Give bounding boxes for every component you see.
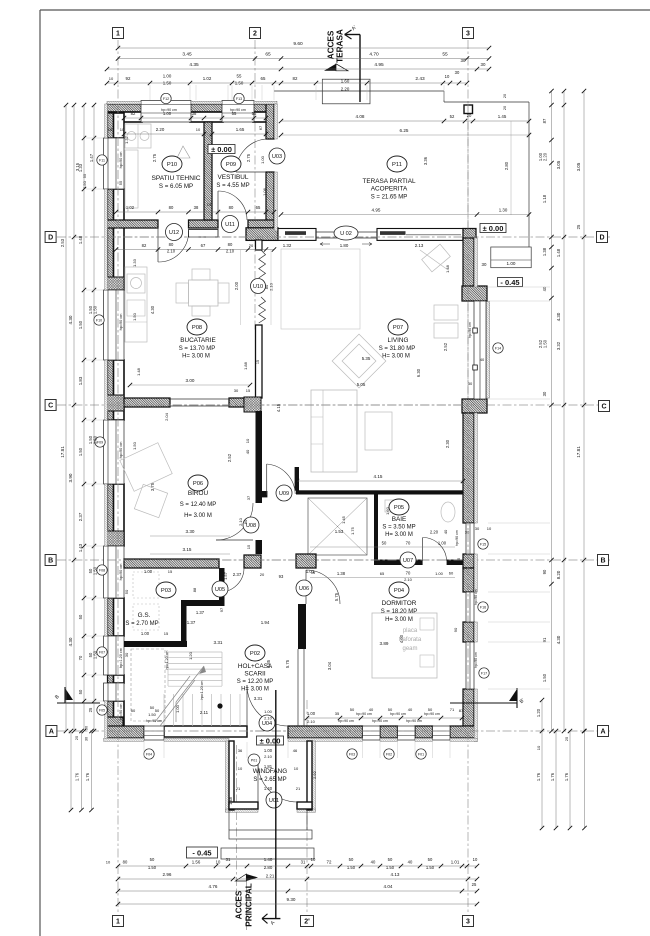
door U12 swing into kitchen xyxy=(158,231,189,262)
svg-text:1.01: 1.01 xyxy=(451,860,460,865)
axis box 2 top xyxy=(250,28,261,39)
room P11 TERASA xyxy=(387,156,407,172)
svg-text:G.S.: G.S. xyxy=(138,612,151,619)
baie west wall xyxy=(374,494,378,562)
svg-text:70: 70 xyxy=(406,571,411,576)
svg-text:10: 10 xyxy=(238,766,243,771)
door circle U05 xyxy=(212,581,228,597)
grid axis B (horizontal y=560) xyxy=(57,559,610,561)
svg-text:67: 67 xyxy=(201,243,206,248)
svg-text:2.85: 2.85 xyxy=(266,659,271,668)
right-bottom tiers below axis A xyxy=(541,700,543,828)
axis box D right xyxy=(597,232,608,243)
svg-text:1.06: 1.06 xyxy=(262,187,267,196)
exterior wall: west (left), piers between windows xyxy=(108,113,114,138)
svg-text:2.21: 2.21 xyxy=(266,874,275,879)
door U05 swing xyxy=(220,568,244,592)
svg-text:70: 70 xyxy=(78,655,83,660)
svg-text:U01: U01 xyxy=(269,798,279,804)
svg-text:P09: P09 xyxy=(226,162,236,168)
svg-text:4.04: 4.04 xyxy=(384,884,393,889)
svg-text:2.75: 2.75 xyxy=(152,153,157,162)
svg-text:31: 31 xyxy=(301,860,306,865)
svg-text:2.20: 2.20 xyxy=(430,530,439,535)
svg-text:F12: F12 xyxy=(163,97,169,101)
top dimension tier 4 (detail) xyxy=(107,82,467,84)
axis A overlay xyxy=(107,730,477,732)
svg-text:10: 10 xyxy=(106,860,111,865)
svg-text:ACCES: ACCES xyxy=(327,30,336,59)
living side table xyxy=(365,412,392,450)
window circle F17 xyxy=(479,668,489,678)
svg-text:hp=1.20 cm: hp=1.20 cm xyxy=(165,651,169,670)
svg-text:TERASA PARTIAL: TERASA PARTIAL xyxy=(362,178,415,185)
svg-text:hp=90 cm: hp=90 cm xyxy=(119,442,123,459)
svg-text:2.10: 2.10 xyxy=(404,577,413,582)
svg-text:F01: F01 xyxy=(418,753,424,757)
svg-text:30: 30 xyxy=(124,652,129,657)
svg-text:50: 50 xyxy=(78,614,83,619)
door U11 swing into vestibul xyxy=(218,191,247,220)
svg-text:1.33: 1.33 xyxy=(132,258,137,267)
sheet border frame xyxy=(40,9,650,11)
svg-text:5.75: 5.75 xyxy=(334,592,339,601)
svg-text:25: 25 xyxy=(74,735,79,740)
svg-text:2': 2' xyxy=(304,918,310,925)
living carpet outline xyxy=(281,249,360,329)
top dimension tier 2 (3.45 / 65 / 4.70 / 55) xyxy=(118,58,489,60)
svg-text:hp=90 cm: hp=90 cm xyxy=(455,530,459,546)
svg-text:4.13: 4.13 xyxy=(391,872,400,877)
svg-text:2.53: 2.53 xyxy=(60,238,65,247)
svg-text:1: 1 xyxy=(116,30,120,37)
svg-text:40: 40 xyxy=(408,860,413,865)
svg-text:hp=90 cm: hp=90 cm xyxy=(119,704,123,721)
svg-text:H= 3.00 M: H= 3.00 M xyxy=(385,617,413,623)
svg-text:2.20: 2.20 xyxy=(543,152,548,161)
svg-text:S = 21.65 MP: S = 21.65 MP xyxy=(371,195,408,201)
zigzag break above U10 xyxy=(259,250,266,278)
svg-text:S = 18.20 MP: S = 18.20 MP xyxy=(381,609,418,615)
window circle F01 xyxy=(416,749,426,759)
window F14 (east wall) xyxy=(474,301,486,399)
kitchen counter xyxy=(125,267,147,342)
svg-text:B: B xyxy=(48,557,53,564)
kitchen dining table xyxy=(189,280,219,306)
svg-text:1.76: 1.76 xyxy=(550,772,555,781)
exterior wall: north (top) of P10/P09 xyxy=(107,104,142,112)
living north wall (terrace front): vestibul SE corner block xyxy=(246,228,278,241)
svg-text:1.60: 1.60 xyxy=(385,506,390,515)
bottom dimension tier 1 (windows south) xyxy=(118,865,477,867)
svg-text:1.20: 1.20 xyxy=(536,708,541,717)
svg-text:U03: U03 xyxy=(272,154,282,160)
svg-text:F15: F15 xyxy=(480,543,486,547)
window F01 (south wall) xyxy=(433,726,451,740)
svg-text:1.57: 1.57 xyxy=(223,571,228,580)
svg-text:3.05: 3.05 xyxy=(556,160,561,169)
svg-text:BUCATARIE: BUCATARIE xyxy=(180,337,216,344)
svg-text:1.00: 1.00 xyxy=(175,704,180,713)
svg-text:F17: F17 xyxy=(481,672,487,676)
svg-text:1.00: 1.00 xyxy=(264,748,273,753)
bottom dimension tier 3 (4.76 / 4.04 / 25) xyxy=(118,890,477,892)
axis box 1 bottom xyxy=(113,916,124,927)
svg-text:2.80: 2.80 xyxy=(264,865,273,870)
svg-text:1.00: 1.00 xyxy=(141,631,150,636)
door circle U04 xyxy=(259,715,275,731)
section marker B' right xyxy=(450,702,517,704)
svg-text:15: 15 xyxy=(168,569,173,574)
svg-text:4.15: 4.15 xyxy=(374,474,383,479)
kitchen south wall at axis C xyxy=(124,398,170,407)
svg-text:1.50: 1.50 xyxy=(78,320,83,329)
window circle F11 xyxy=(97,155,107,165)
svg-text:2.10: 2.10 xyxy=(226,249,235,254)
svg-text:40: 40 xyxy=(480,357,485,362)
svg-text:4.08: 4.08 xyxy=(356,114,365,119)
window circle F02 xyxy=(384,749,394,759)
svg-text:1.50: 1.50 xyxy=(542,673,547,682)
svg-text:1.50: 1.50 xyxy=(93,305,98,314)
svg-text:hp=90 cm: hp=90 cm xyxy=(468,322,472,338)
section line A at bottom xyxy=(275,690,277,919)
svg-text:U11: U11 xyxy=(225,222,235,228)
svg-text:S = 2.65 MP: S = 2.65 MP xyxy=(253,777,286,783)
svg-text:1.00: 1.00 xyxy=(163,74,172,79)
svg-text:U09: U09 xyxy=(279,491,289,497)
room P09 VESTIBUL xyxy=(221,156,241,172)
svg-text:1.48: 1.48 xyxy=(78,235,83,244)
living NE corner block xyxy=(463,229,476,241)
svg-text:30: 30 xyxy=(455,70,460,75)
svg-text:S = 31.80 MP: S = 31.80 MP xyxy=(379,346,416,352)
level -0.45 entry xyxy=(187,847,218,858)
svg-text:55: 55 xyxy=(118,180,123,185)
svg-text:1.32: 1.32 xyxy=(283,243,292,248)
svg-text:30: 30 xyxy=(465,530,470,535)
top dimension tier 3 (4.35 / 4.95 / 30) xyxy=(107,68,489,70)
grid axis D (horizontal y=237) xyxy=(57,236,610,238)
grid axis 2' (vertical x=307, bottom) xyxy=(306,700,308,912)
svg-text:50: 50 xyxy=(85,726,89,730)
svg-text:4.30: 4.30 xyxy=(556,312,561,321)
svg-text:1.00: 1.00 xyxy=(507,261,516,266)
svg-text:2.92: 2.92 xyxy=(312,770,317,779)
svg-text:LIVING: LIVING xyxy=(388,337,409,344)
svg-text:20: 20 xyxy=(249,243,254,248)
exterior wall: south (bottom) xyxy=(107,717,123,738)
svg-text:A: A xyxy=(600,728,605,735)
svg-text:placa: placa xyxy=(403,628,418,634)
svg-text:1.40: 1.40 xyxy=(264,857,273,862)
svg-text:2.10: 2.10 xyxy=(307,719,316,724)
svg-text:80: 80 xyxy=(123,860,128,865)
svg-text:3: 3 xyxy=(466,918,470,925)
section line A' at top xyxy=(359,35,361,103)
svg-text:1.50: 1.50 xyxy=(78,447,83,456)
svg-text:10: 10 xyxy=(294,766,299,771)
svg-text:1.02: 1.02 xyxy=(203,76,212,81)
svg-text:3.31: 3.31 xyxy=(214,640,223,645)
window circle F07 xyxy=(97,647,107,657)
svg-text:1.50: 1.50 xyxy=(347,865,356,870)
bottom dimension tier 4 (9.30) xyxy=(118,903,477,905)
svg-text:8.20: 8.20 xyxy=(556,570,561,579)
grid axis 3 (vertical x=468) xyxy=(467,40,469,912)
level -0.45 terrace east xyxy=(498,278,523,287)
wall at axis B (birou/G.S.) xyxy=(124,559,219,568)
wall: south of P10/P09 block xyxy=(107,220,158,228)
svg-text:4.76: 4.76 xyxy=(209,884,218,889)
zigzag break below U10 xyxy=(259,297,266,323)
svg-text:15: 15 xyxy=(256,360,260,364)
svg-text:9.60: 9.60 xyxy=(293,41,303,47)
room P05 BAIE xyxy=(389,499,409,515)
svg-text:3.15: 3.15 xyxy=(183,547,192,552)
svg-text:50: 50 xyxy=(350,707,355,712)
svg-text:F09: F09 xyxy=(97,441,103,445)
svg-text:1.50: 1.50 xyxy=(426,865,435,870)
level +-0.00 vestibul xyxy=(208,145,235,154)
svg-text:1.50: 1.50 xyxy=(148,712,157,717)
svg-text:F04: F04 xyxy=(146,753,152,757)
svg-text:1.20: 1.20 xyxy=(188,651,193,660)
svg-text:17.81: 17.81 xyxy=(60,446,65,458)
svg-text:1.50: 1.50 xyxy=(163,81,172,86)
spatiu tehnic equipment xyxy=(125,124,151,148)
svg-text:1.50: 1.50 xyxy=(235,81,244,86)
svg-text:1.48: 1.48 xyxy=(228,796,233,805)
svg-text:F16: F16 xyxy=(480,606,486,610)
kitchen-living opening U10 jambs xyxy=(256,240,263,250)
axis box C right xyxy=(599,401,610,412)
svg-text:82: 82 xyxy=(293,76,298,81)
svg-text:F14: F14 xyxy=(495,347,501,351)
svg-text:5.75: 5.75 xyxy=(285,659,290,668)
svg-text:20: 20 xyxy=(260,572,265,577)
door U09 swing into living xyxy=(267,464,296,494)
window circle F13 xyxy=(234,93,244,103)
svg-text:4.00: 4.00 xyxy=(399,634,404,643)
bottom dimension tier 2 (2.96 / 2.21 / 4.13) xyxy=(118,878,477,880)
svg-text:3.05: 3.05 xyxy=(576,162,581,171)
svg-text:- 0.45: - 0.45 xyxy=(192,848,211,857)
svg-text:50: 50 xyxy=(349,857,354,862)
lintel over opening near U12 xyxy=(189,230,219,238)
svg-text:hp=90 cm: hp=90 cm xyxy=(161,108,177,112)
room P01 WINDFANG xyxy=(248,754,260,766)
svg-text:1.48: 1.48 xyxy=(136,367,141,376)
doors row dims under U11/U12 xyxy=(116,249,274,251)
window circle F15 xyxy=(478,539,488,549)
svg-text:30: 30 xyxy=(234,388,239,393)
window F04 (south wall) xyxy=(144,726,164,740)
living diamond table xyxy=(332,334,386,388)
svg-text:15: 15 xyxy=(246,388,251,393)
svg-text:2.13: 2.13 xyxy=(415,243,424,248)
staircase treads (lower flight) xyxy=(163,694,165,726)
svg-text:38: 38 xyxy=(192,111,197,116)
svg-text:hp=90 cm: hp=90 cm xyxy=(372,719,388,723)
left dimension tier (window sizes 1.50) xyxy=(93,105,95,731)
svg-text:S = 3.50 MP: S = 3.50 MP xyxy=(382,525,415,531)
svg-text:SCARII: SCARII xyxy=(244,671,266,678)
svg-text:hp=90 cm: hp=90 cm xyxy=(424,712,440,716)
svg-text:ACCES: ACCES xyxy=(234,890,243,919)
svg-text:92: 92 xyxy=(126,76,131,81)
window F02 (south wall) xyxy=(398,726,416,740)
hol west wall (birou side) xyxy=(256,411,263,503)
svg-text:F03: F03 xyxy=(349,753,355,757)
svg-text:2.37: 2.37 xyxy=(78,512,83,521)
svg-text:1.50: 1.50 xyxy=(93,650,98,659)
svg-text:1.50: 1.50 xyxy=(543,339,548,348)
acces principal arrow and label xyxy=(235,874,246,881)
svg-text:38: 38 xyxy=(194,205,199,210)
extension lines bottom xyxy=(362,742,364,758)
svg-text:52: 52 xyxy=(450,114,455,119)
svg-text:25: 25 xyxy=(576,224,581,229)
svg-text:1.30: 1.30 xyxy=(499,208,508,213)
svg-text:4.70: 4.70 xyxy=(369,52,379,58)
svg-text:hp=90 cm: hp=90 cm xyxy=(119,314,123,331)
svg-text:80: 80 xyxy=(229,205,234,210)
svg-text:1.00: 1.00 xyxy=(307,711,316,716)
svg-text:1.43: 1.43 xyxy=(78,543,83,552)
axis box D left xyxy=(45,232,56,243)
axis box 3 bottom xyxy=(463,916,474,927)
window circle F09 xyxy=(95,437,105,447)
P10/P09 interior dims xyxy=(124,117,266,119)
svg-text:40: 40 xyxy=(371,860,376,865)
svg-text:65: 65 xyxy=(261,76,266,81)
window F09 (west wall) xyxy=(104,420,125,484)
window circle F14 xyxy=(493,343,503,353)
wardrobe with X in hol xyxy=(308,498,367,555)
svg-text:4.30: 4.30 xyxy=(150,305,155,314)
svg-text:30: 30 xyxy=(461,58,466,63)
svg-text:65: 65 xyxy=(380,571,385,576)
svg-text:30: 30 xyxy=(475,526,480,531)
svg-text:1.80: 1.80 xyxy=(340,243,349,248)
svg-text:1.00: 1.00 xyxy=(435,571,444,576)
door circle U02 xyxy=(334,226,358,240)
svg-text:1.50: 1.50 xyxy=(148,865,157,870)
svg-text:1.50: 1.50 xyxy=(386,865,395,870)
windfang south wall xyxy=(229,802,258,809)
svg-text:1.38: 1.38 xyxy=(337,571,346,576)
extension lines left margin xyxy=(86,137,103,139)
svg-text:F07: F07 xyxy=(99,651,105,655)
svg-text:D: D xyxy=(48,234,53,241)
window F11 (west wall) xyxy=(104,138,125,189)
svg-text:15: 15 xyxy=(311,571,315,575)
svg-text:6.30: 6.30 xyxy=(416,368,421,377)
axis box B left xyxy=(45,555,56,566)
svg-text:H= 3.00 M: H= 3.00 M xyxy=(382,354,410,360)
svg-text:WINDFANG: WINDFANG xyxy=(253,768,287,775)
svg-text:55: 55 xyxy=(237,74,242,79)
svg-text:40: 40 xyxy=(443,529,448,534)
svg-text:H= 3.00 M: H= 3.00 M xyxy=(184,513,212,519)
insulation strip east wall (vestibul) xyxy=(274,104,277,139)
svg-text:1.83: 1.83 xyxy=(78,376,83,385)
column at axis 3 xyxy=(464,105,473,114)
svg-text:1.76: 1.76 xyxy=(85,772,90,781)
svg-text:70: 70 xyxy=(406,541,411,546)
east wall piers of dormitor xyxy=(463,554,474,568)
sliding frame left box xyxy=(278,229,316,241)
east wall of living room xyxy=(463,238,474,287)
svg-text:P03: P03 xyxy=(161,588,171,594)
grid axis 2 (vertical x=255, top) xyxy=(254,40,256,330)
svg-text:4.35: 4.35 xyxy=(189,62,199,68)
svg-text:3.89: 3.89 xyxy=(380,641,389,646)
window F06 (west wall) xyxy=(104,683,125,701)
door circle U12 xyxy=(166,224,183,241)
door circle U11 xyxy=(222,216,239,233)
window F03 (south wall) xyxy=(363,726,381,740)
svg-text:- 0.45: - 0.45 xyxy=(500,278,519,287)
svg-text:1.76: 1.76 xyxy=(75,772,80,781)
svg-text:50: 50 xyxy=(150,705,155,710)
svg-text:6.25: 6.25 xyxy=(400,128,409,133)
svg-text:P06: P06 xyxy=(193,481,203,487)
svg-text:1.75: 1.75 xyxy=(350,526,355,535)
level +-0.00 living xyxy=(480,224,506,233)
svg-text:4.30: 4.30 xyxy=(68,637,73,646)
svg-text:30: 30 xyxy=(85,737,89,741)
grid axis A (horizontal y=731) xyxy=(57,730,610,732)
room P06 BIROU xyxy=(188,475,208,491)
window circle F12 xyxy=(161,93,171,103)
svg-text:D: D xyxy=(599,234,604,241)
svg-text:U06: U06 xyxy=(299,586,309,592)
svg-text:91: 91 xyxy=(542,637,547,642)
svg-text:93: 93 xyxy=(279,574,284,579)
svg-text:BAIE: BAIE xyxy=(392,516,407,523)
svg-text:55: 55 xyxy=(252,111,257,116)
door circle U07 xyxy=(400,552,416,568)
svg-text:2.75: 2.75 xyxy=(246,153,251,162)
acces terasa step box xyxy=(322,79,370,104)
svg-text:hp=90 cm: hp=90 cm xyxy=(146,719,162,723)
svg-text:1.53: 1.53 xyxy=(335,529,344,534)
svg-text:9.30: 9.30 xyxy=(287,897,296,902)
svg-text:geam: geam xyxy=(402,646,417,652)
svg-text:H= 3.00 M: H= 3.00 M xyxy=(182,354,210,360)
acces terasa arrow and label xyxy=(324,64,336,71)
svg-text:F11: F11 xyxy=(99,159,105,163)
axis box C left xyxy=(45,400,56,411)
svg-text:37: 37 xyxy=(246,495,251,500)
window circle F05 xyxy=(97,705,107,715)
svg-text:40: 40 xyxy=(408,707,413,712)
svg-text:3.45: 3.45 xyxy=(182,52,192,58)
room P08 BUCATARIE xyxy=(187,319,207,335)
svg-text:87: 87 xyxy=(542,118,547,123)
svg-text:3.32: 3.32 xyxy=(556,341,561,350)
svg-text:1.76: 1.76 xyxy=(536,772,541,781)
svg-text:5.05: 5.05 xyxy=(357,382,366,387)
door U03 opening + swing xyxy=(236,139,266,172)
svg-text:1.50: 1.50 xyxy=(82,180,87,189)
dulap dashed outline near stairs xyxy=(131,649,165,721)
window circle F04 xyxy=(144,749,154,759)
svg-text:S = 12.40 MP: S = 12.40 MP xyxy=(180,502,217,508)
window F07 (west wall) xyxy=(104,636,125,675)
